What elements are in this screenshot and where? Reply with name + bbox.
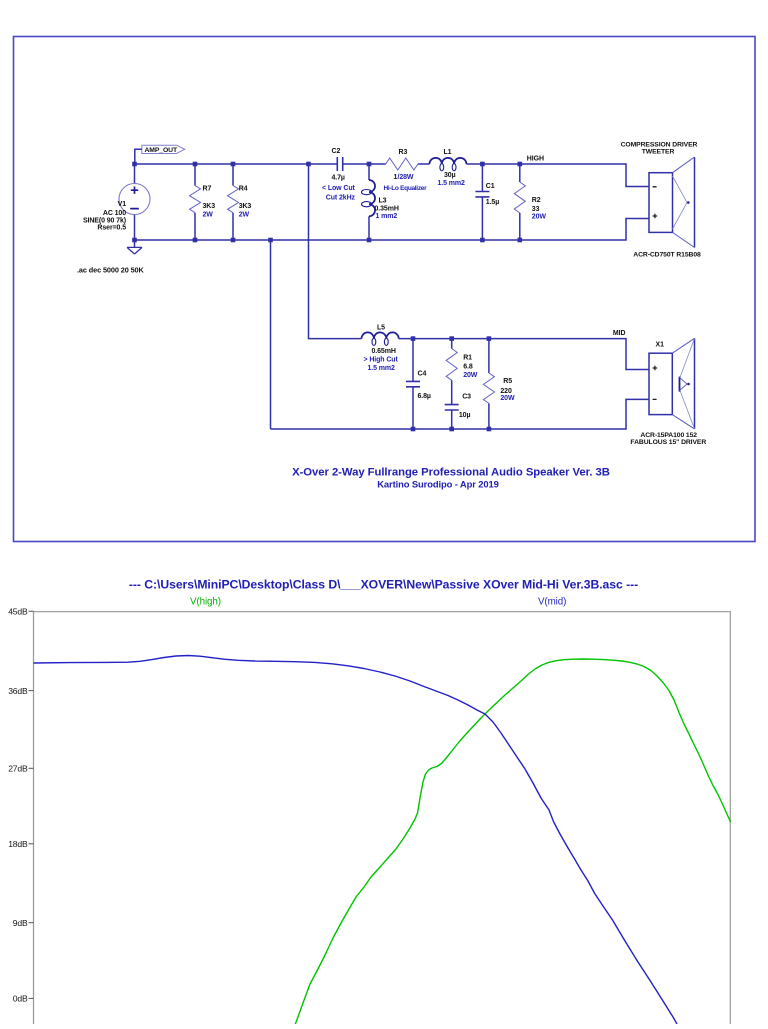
svg-text:R2: R2 xyxy=(532,197,541,204)
y axis ticks and labels xyxy=(8,606,33,1003)
capacitor C1 xyxy=(475,164,499,240)
node MID xyxy=(613,330,626,337)
svg-text:C2: C2 xyxy=(332,148,341,155)
svg-text:ACR-CD750T R15B08: ACR-CD750T R15B08 xyxy=(633,252,701,259)
capacitor C4 xyxy=(406,339,431,429)
wire mid bottom rail to woofer bottom xyxy=(271,399,650,429)
svg-text:R7: R7 xyxy=(203,186,212,193)
svg-text:AMP_OUT: AMP_OUT xyxy=(145,147,178,154)
svg-text:MID: MID xyxy=(613,330,626,337)
junction dots mid section xyxy=(411,336,492,431)
svg-text:L3: L3 xyxy=(379,197,387,204)
svg-text:1 mm2: 1 mm2 xyxy=(376,213,398,220)
svg-text:30µ: 30µ xyxy=(444,172,456,179)
svg-text:18dB: 18dB xyxy=(8,839,28,849)
plot header xyxy=(129,578,638,592)
inductor L3 xyxy=(362,164,399,240)
svg-text:Rser=0.5: Rser=0.5 xyxy=(97,225,126,232)
resistor R1 xyxy=(446,339,478,381)
svg-text:1.5 mm2: 1.5 mm2 xyxy=(368,365,396,372)
resistor R2 xyxy=(514,164,546,240)
svg-text:Hi-Lo Equalizer: Hi-Lo Equalizer xyxy=(384,185,428,192)
resistor R4 xyxy=(228,164,252,240)
wire mid feed from AMP_OUT xyxy=(309,164,362,339)
svg-text:COMPRESSION DRIVER: COMPRESSION DRIVER xyxy=(621,141,698,148)
svg-text:3K3: 3K3 xyxy=(203,203,216,210)
svg-text:V(mid): V(mid) xyxy=(538,597,566,608)
resistor R5 xyxy=(483,339,515,429)
svg-text:2W: 2W xyxy=(203,212,214,219)
svg-text:X-Over 2-Way Fullrange Profess: X-Over 2-Way Fullrange Professional Audi… xyxy=(292,467,610,479)
ground xyxy=(127,240,142,254)
junction dots top section xyxy=(132,162,522,243)
svg-text:R5: R5 xyxy=(503,378,512,385)
svg-text:36dB: 36dB xyxy=(8,686,28,696)
wire top rail C2 to R3 xyxy=(343,163,386,165)
svg-text:FABULOUS 15" DRIVER: FABULOUS 15" DRIVER xyxy=(630,439,706,446)
svg-text:1.5 mm2: 1.5 mm2 xyxy=(438,180,466,187)
svg-text:4.7µ: 4.7µ xyxy=(332,174,345,181)
spice directive .ac xyxy=(77,266,144,275)
voltage source V1 xyxy=(83,164,150,240)
svg-text:C1: C1 xyxy=(486,183,495,190)
capacitor C3 xyxy=(445,380,471,429)
woofer X1 xyxy=(630,338,706,446)
svg-text:> High Cut: > High Cut xyxy=(364,356,399,363)
svg-text:/28W: /28W xyxy=(398,174,414,181)
svg-text:V(high): V(high) xyxy=(190,597,221,608)
svg-text:R4: R4 xyxy=(239,186,248,193)
svg-text:C3: C3 xyxy=(462,394,471,401)
svg-text:Kartino Surodipo - Apr 2019: Kartino Surodipo - Apr 2019 xyxy=(377,479,498,490)
inductor L5 xyxy=(362,325,399,372)
wire ground drop xyxy=(270,240,272,429)
svg-text:20W: 20W xyxy=(532,214,547,221)
svg-text:45dB: 45dB xyxy=(8,606,28,616)
svg-text:3K3: 3K3 xyxy=(239,203,252,210)
inductor L1 xyxy=(430,149,467,187)
resistor R3 xyxy=(384,149,428,192)
curve V(mid) blue xyxy=(34,656,678,1026)
resistor R7 xyxy=(190,164,216,240)
svg-text:0dB: 0dB xyxy=(13,994,28,1004)
wire L1 to tweeter top xyxy=(466,164,649,187)
svg-text:L1: L1 xyxy=(444,149,452,156)
schematic title xyxy=(292,467,610,479)
svg-text:2W: 2W xyxy=(239,212,250,219)
tweeter U1 compression driver xyxy=(621,141,701,258)
svg-text:6.8µ: 6.8µ xyxy=(418,393,431,400)
svg-text:0.35mH: 0.35mH xyxy=(375,206,399,213)
svg-text:HIGH: HIGH xyxy=(527,155,544,162)
svg-text:ACR-15PA100 152: ACR-15PA100 152 xyxy=(640,432,697,439)
svg-text:.ac dec 5000 20 50K: .ac dec 5000 20 50K xyxy=(77,266,144,275)
legend V(high) xyxy=(190,597,221,608)
svg-text:6.8: 6.8 xyxy=(463,364,473,371)
svg-text:20W: 20W xyxy=(463,372,478,379)
svg-text:20W: 20W xyxy=(500,395,515,402)
svg-text:33: 33 xyxy=(532,206,540,213)
svg-text:Cut 2kHz: Cut 2kHz xyxy=(326,195,356,202)
schematic subtitle xyxy=(377,479,498,490)
svg-text:10µ: 10µ xyxy=(459,412,471,419)
svg-text:TWEETER: TWEETER xyxy=(642,148,675,155)
capacitor C2 xyxy=(322,148,356,201)
svg-text:R3: R3 xyxy=(399,149,408,156)
svg-text:C4: C4 xyxy=(418,371,427,378)
svg-text:V1: V1 xyxy=(118,201,127,208)
curve V(high) green xyxy=(295,659,731,1025)
svg-text:L5: L5 xyxy=(377,325,385,332)
svg-text:--- C:\Users\MiniPC\Desktop\C: --- C:\Users\MiniPC\Desktop\Class D\___X… xyxy=(129,578,638,592)
svg-text:27dB: 27dB xyxy=(8,764,28,774)
wire top rail left xyxy=(135,163,338,165)
svg-text:9dB: 9dB xyxy=(13,918,28,928)
svg-text:220: 220 xyxy=(500,388,512,395)
svg-text:0.65mH: 0.65mH xyxy=(372,348,396,355)
svg-text:R1: R1 xyxy=(463,354,472,361)
svg-text:< Low Cut: < Low Cut xyxy=(322,185,356,192)
node HIGH xyxy=(527,155,544,162)
legend V(mid) xyxy=(538,597,566,608)
svg-text:AC 100: AC 100 xyxy=(103,210,126,217)
svg-text:1.5µ: 1.5µ xyxy=(486,199,499,206)
svg-text:X1: X1 xyxy=(656,342,665,349)
wire mid rail to woofer top xyxy=(399,339,649,370)
wire R3 to L1 xyxy=(418,163,430,165)
node AMP_OUT flag xyxy=(135,145,185,164)
plot frame xyxy=(34,612,731,1024)
wire bottom rail to tweeter bottom xyxy=(135,219,650,241)
